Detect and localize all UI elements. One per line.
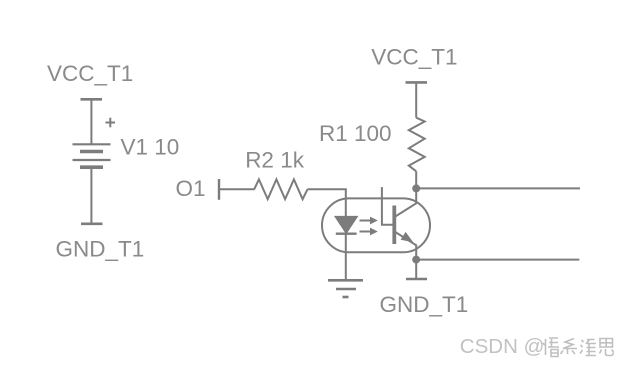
svg-text:CSDN @: CSDN @ — [460, 335, 545, 358]
wire VCC bar to R1 — [415, 82, 417, 117]
ground symbol GND_T1 (left, bar style) — [56, 224, 145, 262]
light coupling arrows — [360, 217, 378, 236]
wire R2 to LED anode (corner) — [308, 189, 346, 217]
junction collector node — [412, 184, 420, 192]
svg-text:GND_T1: GND_T1 — [380, 292, 469, 317]
optocoupler U1 package — [322, 198, 430, 252]
ground symbol (earth, below LED) — [328, 280, 363, 297]
junction emitter node — [412, 256, 420, 264]
wire VCC bar to battery positive — [90, 99, 92, 144]
phototransistor emitter with arrow — [395, 232, 417, 260]
phototransistor base lead (pin up, unconnected) — [382, 187, 393, 225]
resistor R2 — [254, 179, 307, 199]
系 — [561, 339, 578, 355]
wire collector node to right — [416, 187, 580, 189]
resistor R1 — [409, 118, 425, 172]
wire emitter node to GND bar — [415, 260, 417, 279]
svg-text:GND_T1: GND_T1 — [56, 237, 145, 262]
LED inside U1 — [336, 217, 357, 234]
power symbol VCC_T1 (right) — [371, 45, 457, 83]
wire LED cathode to ground — [345, 234, 347, 281]
phototransistor collector — [395, 188, 417, 217]
svg-text:V1 10: V1 10 — [121, 135, 180, 160]
淮 — [580, 340, 596, 357]
情 — [543, 338, 560, 357]
watermark CSDN — [460, 335, 614, 359]
power symbol VCC_T1 (left) — [47, 61, 133, 99]
node O1 (input port) — [176, 176, 220, 201]
wire battery negative to GND bar — [90, 168, 92, 224]
ground symbol GND_T1 (right, bar style) — [380, 279, 469, 317]
svg-text:O1: O1 — [176, 176, 206, 201]
wire emitter node to right — [416, 259, 579, 261]
svg-text:R2 1k: R2 1k — [245, 147, 305, 172]
svg-text:R1 100: R1 100 — [319, 121, 392, 146]
battery V1 — [73, 144, 111, 167]
思 — [600, 339, 614, 356]
wire R1 to collector node — [415, 171, 417, 188]
battery V1 plus sign — [106, 118, 116, 128]
svg-text:VCC_T1: VCC_T1 — [47, 61, 133, 86]
svg-text:VCC_T1: VCC_T1 — [371, 45, 457, 70]
wire O1 to R2 — [219, 188, 255, 190]
phototransistor Q1 base bar — [392, 206, 396, 245]
